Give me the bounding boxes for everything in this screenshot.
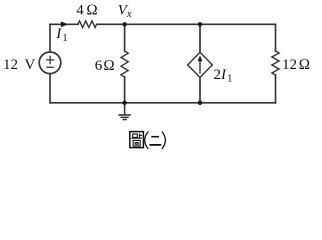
svg-text:4: 4 [76,2,84,18]
svg-text:6: 6 [95,58,103,74]
svg-text:2I: 2I [214,67,228,83]
svg-text:12: 12 [282,57,297,73]
svg-text:Ω: Ω [299,57,311,73]
svg-text:x: x [126,8,132,20]
svg-text:1: 1 [62,32,68,44]
svg-text:1: 1 [227,72,233,84]
svg-text:12: 12 [3,57,18,73]
svg-text:V: V [25,57,36,73]
svg-text:I: I [55,26,62,42]
svg-text:Ω: Ω [103,58,115,74]
svg-text:Ω: Ω [86,2,98,18]
